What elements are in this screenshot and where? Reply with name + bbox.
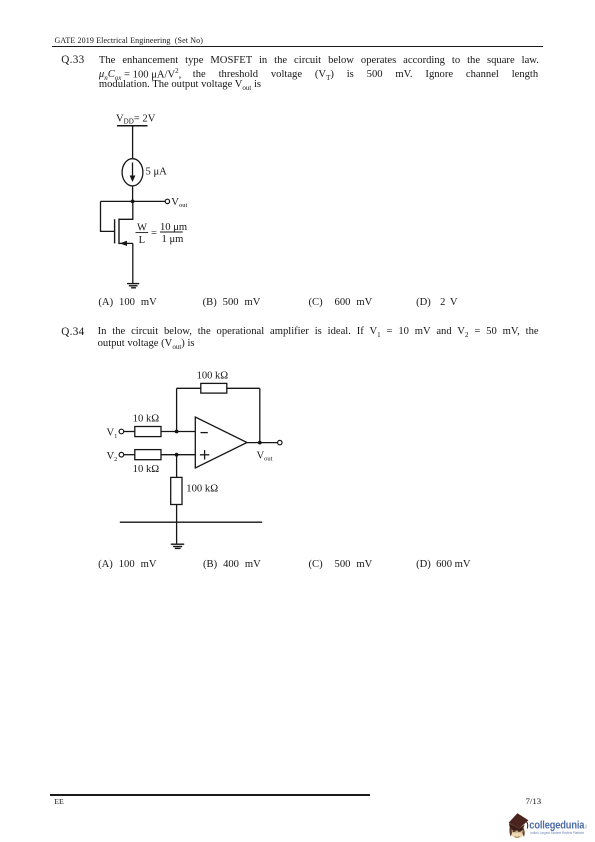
Q.33 circuit schematic xyxy=(90,105,270,295)
W/L ratio label fraction xyxy=(136,222,188,246)
ground rail wire xyxy=(120,521,262,523)
wire node to gate (left branch) xyxy=(101,201,115,231)
mascot graduation cap mortarboard xyxy=(509,813,529,828)
svg-text:India's Largest Student Review: India's Largest Student Review Platform xyxy=(530,831,584,835)
Q.34 option A xyxy=(98,559,156,570)
Q.33 line 3 xyxy=(99,79,261,92)
output terminal circle xyxy=(278,440,282,444)
svg-text:=: = xyxy=(151,228,157,239)
wire feedback left xyxy=(177,387,201,389)
svg-text:L: L xyxy=(139,235,145,246)
junction dot output node xyxy=(258,441,262,445)
wire source to ground xyxy=(132,243,134,283)
svg-text:collegedunia: collegedunia xyxy=(529,819,585,831)
mascot cap tassel xyxy=(527,822,528,829)
wire rail to ground symbol xyxy=(176,522,178,544)
svg-text:W: W xyxy=(137,222,147,233)
Q.33 option D xyxy=(416,297,457,308)
header text xyxy=(55,36,204,45)
current source I1 circle xyxy=(122,159,143,186)
ground symbol xyxy=(171,544,184,548)
svg-text:100 kΩ: 100 kΩ xyxy=(197,370,229,381)
Q.33 line 2 xyxy=(99,67,538,83)
svg-text:10 kΩ: 10 kΩ xyxy=(133,413,160,424)
current source arrow (downward) xyxy=(130,163,136,183)
mascot hair right side xyxy=(522,828,525,837)
wire VDD bar to current source xyxy=(132,126,134,159)
wire current source to node xyxy=(132,186,134,202)
svg-text:VDD= 2V: VDD= 2V xyxy=(116,113,156,125)
wire riser output node to feedback xyxy=(259,388,261,442)
Q.33 option A xyxy=(98,297,156,308)
header rule xyxy=(52,46,543,47)
Q.33 number xyxy=(61,54,84,66)
svg-text:Vout: Vout xyxy=(257,450,273,462)
mascot cap brim shadow xyxy=(509,823,525,831)
mascot hair left side xyxy=(509,826,513,837)
Q.34 number xyxy=(61,326,84,338)
resistor R1 body xyxy=(135,427,161,437)
input terminal circle V1 xyxy=(119,429,124,434)
Q.33 line 1 xyxy=(99,55,539,66)
wire V1 to R1 xyxy=(124,431,135,433)
junction dot non-inverting node xyxy=(175,453,179,457)
node horizontal wire xyxy=(101,200,166,202)
svg-text:10 μm: 10 μm xyxy=(160,222,188,233)
wire V2 to R2 xyxy=(124,454,135,456)
MOSFET drain wire xyxy=(119,201,133,219)
footer rule xyxy=(50,794,370,795)
Q.34 option C xyxy=(309,559,373,570)
VDD supply rail bar xyxy=(117,125,148,127)
Q.34 line 2 xyxy=(98,338,195,351)
wire R1 to inverting input xyxy=(161,431,195,433)
svg-text:V1: V1 xyxy=(107,428,118,440)
mascot face xyxy=(510,824,525,838)
Q.33 option B xyxy=(203,297,261,308)
svg-text:10 kΩ: 10 kΩ xyxy=(133,464,160,475)
op-amp plus sign xyxy=(200,450,209,459)
wire feedback right xyxy=(227,387,260,389)
collegedunia logo xyxy=(505,808,595,842)
wire R3 to ground rail xyxy=(176,505,178,523)
op-amp minus sign xyxy=(201,432,208,434)
wire riser inverting node to feedback xyxy=(176,388,178,431)
junction dot inverting node xyxy=(175,430,179,434)
Q.33 option C xyxy=(309,297,373,308)
wire non-inverting node to R3 xyxy=(176,455,178,478)
resistor R3 body (vertical) xyxy=(171,477,182,504)
feedback resistor Rf body xyxy=(201,383,227,393)
MOSFET M1 channel bar xyxy=(118,219,120,245)
VDD supply label VDD= 2V xyxy=(116,113,156,125)
svg-text:V2: V2 xyxy=(107,451,118,463)
wire R2 to non-inverting input xyxy=(161,454,195,456)
svg-text:Vout: Vout xyxy=(171,197,187,209)
input terminal circle V2 xyxy=(119,452,124,457)
Q.34 option B xyxy=(203,559,261,570)
Q.34 line 1 xyxy=(98,326,539,339)
wire op-amp output xyxy=(247,442,278,444)
Q.34 circuit schematic xyxy=(95,360,295,555)
svg-text:1 μm: 1 μm xyxy=(162,234,185,245)
mascot glasses band xyxy=(512,830,524,833)
MOSFET source wire with arrow xyxy=(119,241,133,246)
svg-text:5 μA: 5 μA xyxy=(146,166,168,177)
footer page number 7/13 xyxy=(526,796,542,806)
mascot eyes xyxy=(513,830,516,832)
MOSFET M1 gate bar xyxy=(114,219,116,243)
svg-text:100 kΩ: 100 kΩ xyxy=(186,484,218,495)
resistor R2 body xyxy=(135,450,161,460)
footer EE xyxy=(54,797,64,806)
output terminal circle xyxy=(165,199,169,203)
mascot mouth xyxy=(515,835,520,838)
op-amp U1 triangle xyxy=(195,417,247,468)
junction dot at drain node xyxy=(131,200,135,204)
Q.34 option D xyxy=(416,559,470,570)
logo trademark tick xyxy=(585,825,588,829)
ground symbol xyxy=(127,284,139,288)
